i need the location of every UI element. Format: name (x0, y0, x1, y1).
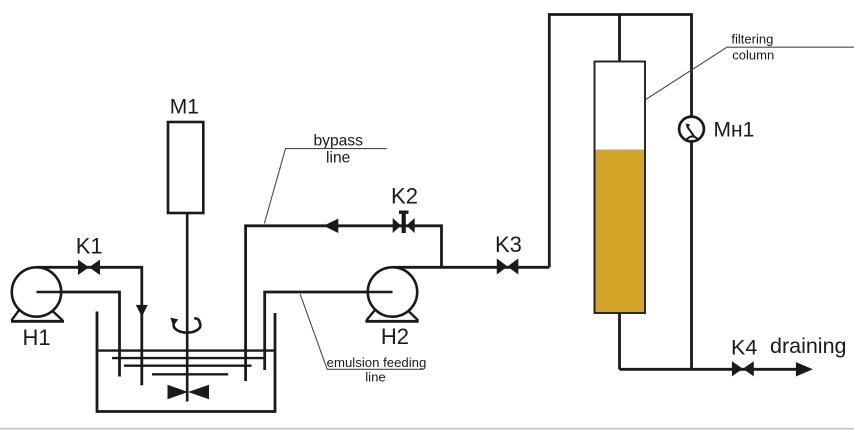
wire column feed drop (618, 15, 621, 62)
wire H1 center suction line into tank (37, 292, 120, 377)
bottom gray rule (0, 428, 854, 430)
tank liquid level line 4 (152, 373, 228, 375)
svg-text:M1: M1 (170, 95, 199, 118)
filtering column label (645, 32, 854, 101)
svg-text:line: line (365, 370, 386, 385)
svg-text:filtering: filtering (731, 32, 773, 47)
svg-text:Mн1: Mн1 (714, 119, 755, 142)
wire H1 top discharge line to tank drop (37, 267, 142, 385)
wire draining line (620, 368, 800, 371)
svg-text:bypass: bypass (313, 132, 363, 149)
arrow downward into tank on K1 line (136, 305, 148, 317)
svg-text:K1: K1 (76, 234, 103, 259)
valve K2 with stem (393, 211, 415, 234)
wire bypass line from riser to tank drop (246, 226, 442, 381)
motor M1 body (168, 122, 203, 213)
tank (open top vessel) (97, 312, 275, 412)
filtering column vessel (595, 62, 646, 314)
bypass line label (264, 132, 386, 223)
svg-text:draining: draining (770, 334, 847, 358)
pump H2 (365, 267, 418, 321)
svg-text:line: line (326, 150, 350, 167)
wire H2 discharge line through K3 to column frame (393, 266, 550, 269)
svg-text:emulsion feeding: emulsion feeding (327, 355, 427, 370)
svg-text:K2: K2 (391, 183, 418, 208)
wire column frame left vertical, top, right vertical (549, 15, 691, 370)
valve K4 (732, 361, 754, 376)
arrow bypass flow direction (left) (324, 219, 339, 233)
valve K1 (78, 260, 100, 275)
stirrer rotation arrow (170, 318, 200, 333)
pump H1 (11, 267, 64, 321)
wire column outlet drop (618, 313, 621, 369)
tank liquid level line 1 (97, 349, 275, 351)
emulsion feeding line label (300, 294, 426, 385)
svg-text:K4: K4 (731, 336, 757, 360)
stirrer shaft (186, 213, 189, 402)
tank liquid level line 3 (124, 365, 252, 367)
svg-text:H1: H1 (22, 325, 50, 350)
arrow draining direction (796, 362, 813, 376)
svg-text:column: column (732, 47, 774, 62)
pressure gauge Mn1 (679, 117, 704, 142)
valve K3 (497, 258, 519, 274)
wire H2 center suction line from tank (265, 292, 393, 370)
svg-text:H2: H2 (381, 324, 409, 349)
svg-text:K3: K3 (495, 232, 522, 257)
tank liquid level line 2 (112, 357, 265, 359)
stirrer impeller (168, 385, 189, 400)
filtering column outline (595, 62, 646, 314)
filtering column packing (gold) (595, 150, 645, 313)
